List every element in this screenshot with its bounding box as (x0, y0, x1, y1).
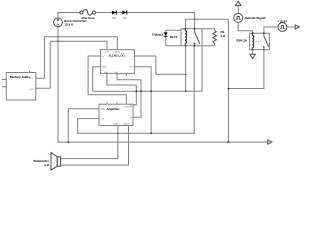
svg-text:12V: 12V (100, 118, 104, 121)
wire amp +12V to switched bus y133 (78, 46, 195, 134)
svg-text:GND: GND (102, 66, 107, 69)
switch blade (194, 29, 196, 46)
relay pin dots (185, 28, 187, 30)
port arrow up (remote source top) (235, 1, 241, 5)
svg-text:Out: Out (104, 71, 108, 74)
svg-text:D2: D2 (123, 17, 127, 20)
svg-text:Out: Out (130, 66, 134, 69)
node junction switch common / coil line (194, 18, 196, 20)
svg-text:4 Ω: 4 Ω (44, 163, 50, 167)
JLCA2 bottom dangling pin (125, 73, 127, 75)
wire L2: JLCA2 out B to amp right pin2 (117, 73, 141, 117)
wire arrow to remote source (237, 6, 239, 14)
wire amp GND to rail (68, 109, 99, 142)
wire battery top to fuse (58, 13, 80, 18)
wire JLCA2 right pin1 to relay coil bottom net (135, 56, 186, 74)
flyback diode D3 (152, 30, 181, 46)
wire amp audio- down to subwoofer (61, 126, 129, 166)
coil arcs (185, 31, 187, 44)
block Amplifier (99, 102, 133, 125)
relay RLY2 (170, 28, 202, 47)
svg-text:RLY2: RLY2 (170, 35, 178, 39)
source V3 +12.8V (278, 19, 288, 31)
svg-text:Out: Out (114, 71, 118, 74)
svg-text:Remote Signal: Remote Signal (245, 16, 266, 20)
port arrow ground rail right (268, 140, 272, 144)
svg-text:GND: GND (100, 108, 105, 111)
svg-text:Audio-: Audio- (123, 123, 130, 126)
SSR U2 (236, 32, 269, 50)
svg-text:Out+: Out+ (29, 77, 35, 80)
svg-text:GND: GND (115, 51, 120, 54)
node dots on GND bus (136, 90, 138, 92)
svg-text:+12.8V: +12.8V (278, 19, 288, 23)
wire net A: factory out1 to JLCA2 top pin 1 (36, 37, 118, 79)
wire amp audio+ down to subwoofer (61, 126, 118, 159)
svg-text:JLCA2 LOC: JLCA2 LOC (108, 53, 125, 57)
svg-text:Amplifier: Amplifier (106, 107, 120, 111)
node junction battery/netA (57, 36, 59, 38)
subwoofer SPK1 (33, 153, 60, 170)
wire SSR coil bottom to gnd arrow (252, 50, 254, 55)
wire GND bus y91 (93, 46, 202, 91)
svg-text:Audio+: Audio+ (113, 123, 121, 126)
svg-text:12V: 12V (105, 51, 109, 54)
wire net B: factory out2 to JLCA2 top pin 2 (36, 41, 107, 88)
wire +12.8V to right port arrow (287, 26, 295, 28)
port arrow down (SSR gnd) (250, 54, 256, 58)
node dots y133 (117, 133, 119, 135)
IC U1 JLCA2 LOC (101, 50, 135, 74)
wire relay coil top to node, over to right column (186, 19, 229, 142)
wire JLCA2 left pin2 down to GND bus y91 (93, 67, 101, 91)
wire remote source to SSR coil (238, 22, 252, 33)
node junction battery/netB (57, 40, 59, 42)
diode D1 (112, 11, 117, 20)
svg-text:Factory Audio: Factory Audio (10, 75, 30, 79)
wire fuse to D1 (95, 12, 112, 14)
svg-text:SSR 2A: SSR 2A (236, 39, 248, 43)
fuse F1 30A (80, 10, 96, 20)
wire JLCA2 left pin1 to amp remote (88, 56, 126, 104)
svg-text:D1: D1 (113, 17, 117, 20)
dashed link (188, 36, 194, 38)
svg-text:Out-: Out- (30, 88, 35, 91)
wire battery bottom to ground rail and rail to arrow (58, 27, 268, 142)
wire L1: JLCA2 out A to amp right pin1 (107, 73, 136, 104)
wire JLCA2 right pin2 down to switched bus y133 (135, 67, 152, 134)
battery V1 Buck Converter (54, 18, 88, 27)
wire relay coil bottom to GND bus (185, 46, 187, 91)
block Factory Audio (2, 71, 36, 100)
wire D2 to relay switch common (127, 13, 194, 29)
svg-text:Flyback: Flyback (152, 32, 164, 36)
wire SSR switch out to x228 net (228, 50, 264, 89)
svg-text:5 Ω: 5 Ω (221, 34, 227, 38)
port arrow right +12.8V (295, 25, 299, 29)
wire +12.8V to SSR switch top (264, 27, 278, 33)
source V2 Remote Signal (234, 13, 266, 22)
svg-text:30A Fuse: 30A Fuse (81, 16, 95, 20)
wire D1 to D2 (117, 12, 122, 14)
svg-text:10.5 V: 10.5 V (64, 23, 73, 27)
resistor R3 (202, 29, 226, 46)
diode D2 (122, 11, 127, 20)
